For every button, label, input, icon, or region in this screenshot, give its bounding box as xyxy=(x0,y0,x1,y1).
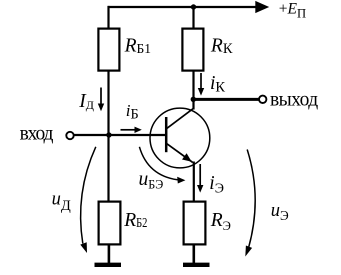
resistor RБ1 value label xyxy=(124,36,151,57)
wire RБ2 to ground xyxy=(108,244,111,264)
wire RЭ to ground xyxy=(193,244,196,264)
resistor RБ2 value label xyxy=(123,210,147,231)
node input junction xyxy=(106,132,111,137)
label iК xyxy=(210,73,225,96)
voltage arrow uЭ (curved) xyxy=(245,150,255,257)
label iЭ xyxy=(209,173,224,197)
label выход xyxy=(270,89,318,110)
label uД xyxy=(52,190,71,214)
resistor RБ1 xyxy=(98,29,119,71)
supply arrow xyxy=(255,1,269,13)
current arrow iБ xyxy=(121,127,142,133)
node top junction xyxy=(191,4,196,9)
resistor RК xyxy=(182,29,203,71)
voltage arrow uД (curved) xyxy=(80,147,96,253)
wire right branch vertical (collector) xyxy=(192,6,194,110)
wire left branch vertical xyxy=(107,6,109,202)
label IД xyxy=(78,91,94,112)
resistor RЭ xyxy=(184,202,206,245)
wire input to base xyxy=(74,134,167,136)
voltage arrow uБЭ (curved) xyxy=(139,147,185,184)
ground (left) xyxy=(95,263,122,267)
transistor VT circle xyxy=(150,108,210,168)
resistor RК value label xyxy=(210,35,233,57)
resistor RЭ value label xyxy=(210,210,231,233)
current arrow IД xyxy=(98,88,104,112)
terminal output circle xyxy=(259,96,266,103)
node collector junction xyxy=(191,97,196,102)
current arrow iК xyxy=(198,73,204,96)
transistor emitter lead with arrow xyxy=(166,143,193,162)
svg-text:выход: выход xyxy=(270,89,318,110)
terminal input circle xyxy=(66,132,73,139)
transistor collector lead xyxy=(166,108,193,129)
label uБЭ xyxy=(139,169,164,191)
label uЭ xyxy=(271,201,289,223)
label iБ xyxy=(126,101,139,123)
wire output xyxy=(193,98,259,101)
label вход xyxy=(20,123,54,144)
wire top rail xyxy=(108,6,256,8)
wire emitter vertical xyxy=(193,162,195,203)
resistor RБ2 xyxy=(99,202,121,245)
current arrow iЭ xyxy=(197,164,203,193)
transistor base bar xyxy=(165,117,168,152)
node +EP label xyxy=(279,0,306,20)
ground (right) xyxy=(183,263,210,267)
svg-text:вход: вход xyxy=(20,123,54,144)
